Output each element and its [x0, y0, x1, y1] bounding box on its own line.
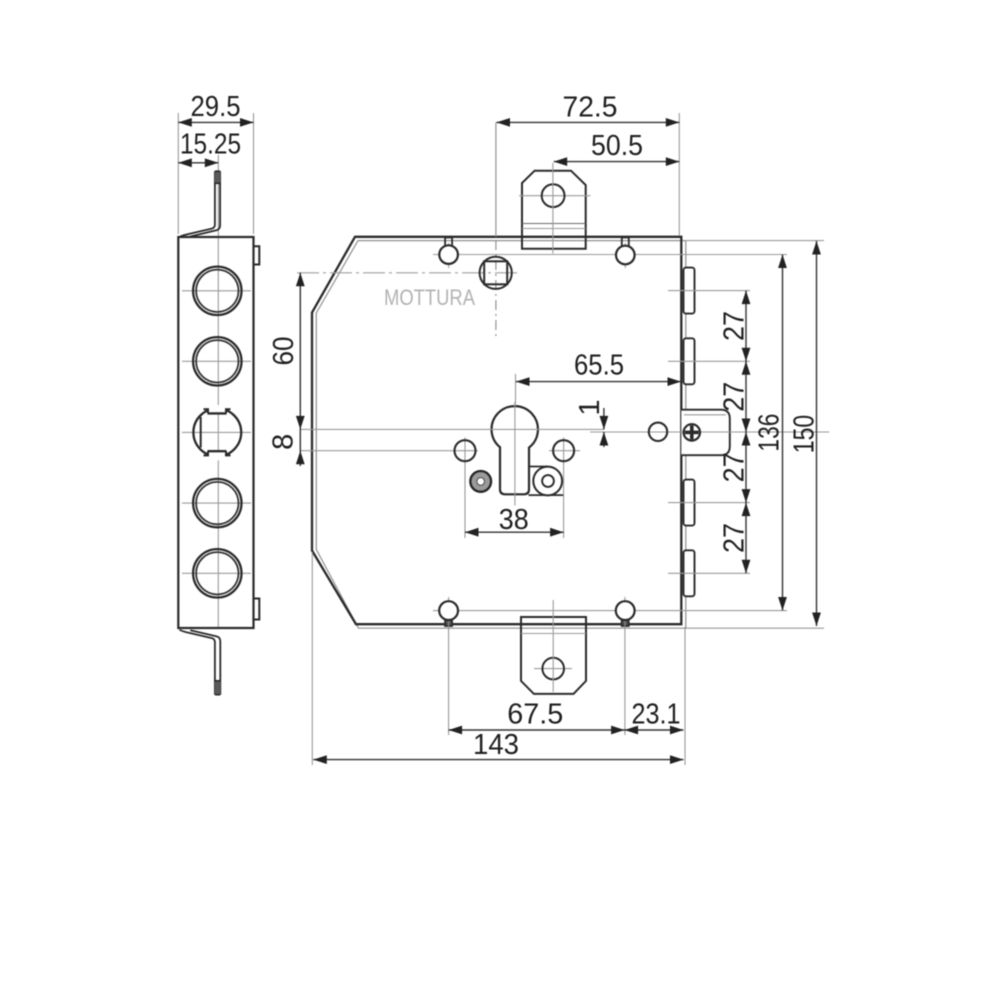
body inner offset outline — [316, 241, 686, 629]
svg-text:27: 27 — [718, 523, 750, 553]
flank hole left — [300, 438, 478, 465]
faceplate centerline — [217, 155, 219, 628]
body edge extension lines right — [686, 241, 824, 629]
dimension 72.5 — [497, 92, 680, 237]
dimension 27 chain — [718, 291, 750, 574]
dimension 143 — [313, 729, 683, 764]
dimension 15.25 — [178, 129, 241, 168]
MOTTURA logo — [384, 285, 475, 310]
dimension 136 — [754, 255, 787, 611]
dimension 1 — [574, 399, 608, 447]
top tab centerline — [552, 163, 554, 254]
svg-text:60: 60 — [268, 337, 300, 366]
bottom tab hole — [534, 658, 572, 680]
euro cylinder keyhole — [492, 406, 538, 494]
svg-text:MOTTURA: MOTTURA — [384, 285, 475, 310]
lever boss circle — [533, 467, 562, 496]
lever boss lines — [529, 467, 565, 496]
dimension 150 — [789, 241, 821, 626]
right bolt 2 — [684, 338, 695, 384]
svg-text:67.5: 67.5 — [507, 699, 563, 731]
small hole right — [649, 423, 667, 441]
svg-text:29.5: 29.5 — [191, 91, 241, 123]
central latch — [681, 410, 730, 456]
flank hole right — [549, 438, 580, 465]
faceplate hole 2 — [182, 337, 251, 385]
faceplate hole 1 — [182, 267, 251, 315]
faceplate top bump — [253, 246, 259, 264]
screws centerline bottom (136 extension) — [433, 610, 787, 612]
faceplate bottom bent tab — [180, 630, 221, 695]
keyhole centerline vertical — [514, 402, 516, 506]
right bolt 4 — [684, 550, 695, 596]
top screw left — [439, 238, 458, 269]
dimension 65.5 — [516, 350, 682, 405]
svg-text:1: 1 — [574, 399, 606, 415]
top mounting tab — [522, 171, 586, 249]
bolt row extension lines — [668, 291, 750, 574]
svg-text:136: 136 — [754, 414, 786, 452]
top screw right — [616, 238, 635, 269]
spindle square hole — [480, 257, 512, 289]
right bolt 3 — [684, 480, 695, 526]
faceplate hole 5 — [182, 549, 251, 597]
dimension 50.5 — [554, 130, 680, 166]
spindle crosshair vertical (72.5 extension) — [495, 122, 497, 337]
dimension 29.5 — [178, 91, 253, 234]
keyhole centerline horizontal — [300, 428, 604, 430]
dimension 60 — [268, 273, 305, 466]
bottom extension lines — [312, 552, 685, 765]
faceplate hole 4 — [182, 479, 251, 527]
phillips screw — [684, 424, 700, 440]
svg-text:72.5: 72.5 — [563, 92, 618, 124]
screws centerline top (136 extension) — [433, 254, 787, 256]
top tab hole — [519, 184, 591, 207]
svg-text:50.5: 50.5 — [591, 130, 643, 162]
svg-text:8: 8 — [268, 434, 300, 450]
bottom screw right — [616, 597, 635, 626]
svg-text:27: 27 — [718, 452, 750, 482]
bottom screw left — [439, 597, 458, 626]
dimension 8 — [268, 434, 305, 464]
bottom tab centerline — [552, 600, 554, 692]
gray pin — [470, 471, 491, 492]
body centerline horizontal — [590, 431, 829, 433]
faceplate hole 3 (cylinder hole with flats) — [182, 405, 251, 460]
svg-text:150: 150 — [789, 415, 821, 454]
body outline — [312, 237, 681, 624]
spindle crosshair horizontal (60 extension) — [297, 272, 519, 274]
faceplate top bent tab — [180, 171, 221, 237]
svg-text:15.25: 15.25 — [180, 129, 241, 161]
dimension 67.5 — [449, 699, 625, 735]
svg-text:23.1: 23.1 — [632, 699, 681, 731]
svg-text:65.5: 65.5 — [574, 350, 624, 382]
faceplate bottom bump — [253, 599, 259, 620]
svg-text:27: 27 — [718, 382, 750, 412]
dimension 38 — [465, 462, 564, 538]
bottom mounting tab — [521, 617, 586, 694]
dimension 23.1 — [625, 699, 684, 735]
svg-text:38: 38 — [499, 504, 529, 536]
faceplate outline — [178, 237, 253, 628]
svg-text:143: 143 — [473, 729, 519, 761]
svg-text:27: 27 — [718, 311, 750, 341]
right bolt 1 — [684, 268, 695, 314]
